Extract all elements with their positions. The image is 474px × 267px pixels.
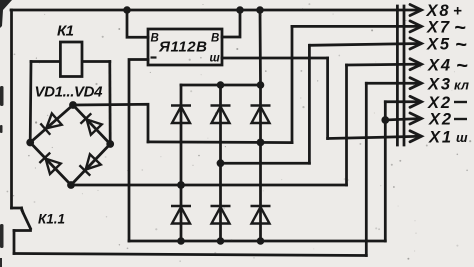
wire X2b shaft <box>385 119 420 121</box>
diode VD4 bottom-right <box>79 154 100 175</box>
arrow X2b <box>410 113 422 124</box>
arrow X2a <box>410 96 422 107</box>
rectifier diode lower 2 <box>211 206 231 224</box>
node cathode bus col3 <box>257 81 265 89</box>
wire pin minus <box>129 60 148 242</box>
arrow X1 <box>410 131 422 142</box>
regulator U1 box <box>148 29 222 65</box>
rectifier diode upper 1 <box>171 106 191 124</box>
node bridge top <box>69 101 77 109</box>
wire left vertical <box>10 10 13 208</box>
connector line b <box>403 6 406 145</box>
svg-text:кл: кл <box>454 78 469 93</box>
node top bus dot 2 <box>236 6 244 14</box>
diode VD2 bottom-left <box>39 153 60 174</box>
diode VD3 top-right <box>80 113 101 134</box>
node X2 junction <box>381 116 389 124</box>
node bridge right <box>106 140 114 148</box>
node phase1 col1 <box>177 181 185 189</box>
node minus bus col1 <box>177 237 185 245</box>
scan artifacts left edge <box>0 86 4 267</box>
wire X3 shaft <box>366 82 420 85</box>
relay K1 coil <box>60 42 82 77</box>
wire X5 shaft <box>309 44 420 46</box>
relay K1 wire left <box>31 60 60 63</box>
bridge edge bottom-left <box>30 143 71 186</box>
svg-text:Х5: Х5 <box>426 36 450 54</box>
svg-text:В: В <box>151 33 159 45</box>
arrow X7 <box>410 21 422 32</box>
wire column3 <box>259 85 262 241</box>
wire phase2 from column2 <box>221 162 310 165</box>
wire V3 up to X5 <box>308 45 311 163</box>
svg-text:Я112В: Я112В <box>158 39 207 56</box>
wire V7 up to X2 <box>384 102 387 241</box>
svg-text:~: ~ <box>456 55 468 77</box>
bridge edge top-right <box>73 105 110 144</box>
wire X7 shaft <box>292 25 420 28</box>
wire bottom <box>14 254 366 256</box>
node phase3 col3 <box>257 139 265 147</box>
wire phase3 <box>148 141 292 144</box>
svg-text:Х1: Х1 <box>428 129 451 147</box>
wire V1 up to X7 <box>291 26 294 142</box>
wire X1 shaft <box>328 136 420 138</box>
node minus bus col3 <box>257 237 265 245</box>
svg-text:К1: К1 <box>57 23 74 40</box>
rectifier diode lower 3 <box>251 206 271 224</box>
wire bridge top node east <box>73 104 148 142</box>
bridge edge top-left <box>30 105 73 143</box>
svg-text:К1.1: К1.1 <box>38 212 65 227</box>
arrow X3 <box>410 78 422 89</box>
node top bus dot 3 <box>256 6 264 14</box>
svg-text:ш: ш <box>210 53 221 65</box>
rectifier diode lower 1 <box>171 206 191 224</box>
svg-text:ш: ш <box>456 130 468 145</box>
arrow X4 <box>410 59 422 70</box>
wire column2 <box>219 85 222 241</box>
contact K1.1 <box>12 208 31 254</box>
svg-text:Х3: Х3 <box>427 76 450 94</box>
rectifier diode upper 3 <box>251 106 271 124</box>
svg-text:~: ~ <box>455 34 467 56</box>
wire X2a shaft <box>385 100 420 103</box>
arrows of connector X <box>410 5 422 142</box>
svg-text:Х8: Х8 <box>426 2 450 20</box>
relay K1 wire right <box>82 60 110 63</box>
svg-text:Х7: Х7 <box>426 19 450 37</box>
wire column1 <box>180 85 183 241</box>
svg-text:Х2: Х2 <box>428 111 451 129</box>
arrow X5 <box>410 38 422 49</box>
wire X4 shaft <box>347 63 421 67</box>
arrow X8 <box>410 5 422 16</box>
wire minus bus <box>129 240 385 243</box>
scan artifact top-left corner <box>0 0 12 28</box>
wire pin V right <box>222 10 240 37</box>
wire V0 plus to cathode bus <box>259 10 262 85</box>
wire V4 down <box>326 58 329 139</box>
rectifier diode upper 2 <box>211 106 231 124</box>
svg-text:В: В <box>211 33 219 45</box>
node bridge bottom <box>67 181 75 189</box>
node cathode bus col2 <box>217 81 225 89</box>
wire phase1 from bridge bottom <box>71 184 347 187</box>
wire top plus bus <box>11 9 420 12</box>
svg-text:Х4: Х4 <box>427 57 450 75</box>
svg-text:Х2: Х2 <box>427 94 450 112</box>
node bridge left <box>26 139 34 147</box>
svg-text:VD1...VD4: VD1...VD4 <box>35 84 104 101</box>
node minus bus col2 <box>217 237 225 245</box>
node top bus dot 1 <box>123 6 131 14</box>
wire cathode bus <box>181 84 261 87</box>
wire pin sh <box>222 57 328 60</box>
wire V5 up to X4 <box>345 65 348 185</box>
connector line a <box>396 6 399 145</box>
wire pin V left <box>127 10 148 37</box>
node phase2 col2 <box>217 159 225 167</box>
wire right node down <box>108 62 111 145</box>
diode VD1 top-left <box>40 113 61 134</box>
bridge edge bottom-right <box>71 144 110 185</box>
wire V6 up to X3 <box>365 83 368 255</box>
wire left node down <box>29 62 33 143</box>
pin label minus <box>151 56 157 58</box>
